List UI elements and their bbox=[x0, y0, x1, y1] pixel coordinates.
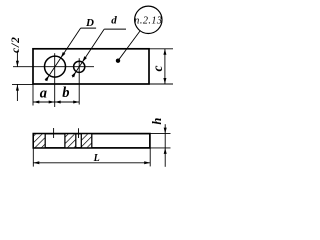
hole d circle bbox=[74, 61, 85, 72]
extension line (plate left edge) below plate for a bbox=[32, 84, 34, 106]
section view outline bbox=[33, 134, 150, 148]
hatch middle block bbox=[65, 134, 76, 147]
vertical centerline of hole D / extension for a,b bbox=[54, 53, 56, 107]
hole d left edge in section bbox=[75, 134, 77, 148]
svg-text:D: D bbox=[85, 17, 94, 29]
extension of section bottom edge right for h bbox=[150, 147, 171, 149]
leader line D through hole bbox=[46, 28, 81, 81]
svg-text:b: b bbox=[62, 85, 69, 101]
svg-text:L: L bbox=[93, 153, 100, 164]
dimension c/2 line bbox=[16, 51, 18, 67]
plate outline (top view) bbox=[33, 49, 149, 84]
extension of section top edge right for h bbox=[150, 133, 171, 135]
horizontal centerline through holes bbox=[13, 66, 94, 68]
hole D left edge in section bbox=[44, 134, 46, 148]
hole d centerline tick in section bbox=[78, 128, 80, 138]
leader line d through hole bbox=[72, 29, 104, 77]
svg-text:a: a bbox=[40, 85, 47, 101]
hole d right edge in section bbox=[80, 134, 82, 148]
extension of bottom edge to right for c bbox=[149, 83, 173, 85]
hatch left block bbox=[34, 134, 45, 147]
dimension L line bbox=[33, 162, 150, 164]
extension of top edge to right for c bbox=[149, 48, 173, 50]
hatch right block bbox=[81, 134, 92, 147]
vertical centerline of hole d / extension for b bbox=[78, 58, 80, 104]
hole D centerline tick in section bbox=[53, 128, 55, 138]
svg-text:п.2.13: п.2.13 bbox=[134, 16, 162, 27]
extension line left for L bbox=[32, 148, 34, 167]
dimension c line bbox=[164, 49, 166, 84]
svg-text:c/2: c/2 bbox=[10, 36, 22, 53]
balloon п.2.13 bbox=[135, 6, 162, 33]
balloon leader dot bbox=[116, 59, 120, 63]
svg-text:h: h bbox=[150, 118, 164, 125]
dimension line a,b bbox=[33, 101, 79, 103]
dimension h line bbox=[164, 124, 166, 167]
svg-text:c: c bbox=[150, 66, 165, 72]
svg-text:d: d bbox=[111, 15, 117, 27]
extension of plate bottom edge to the left for c/2 bbox=[12, 83, 33, 85]
balloon leader bbox=[118, 31, 140, 61]
hole D right edge in section bbox=[64, 134, 66, 148]
hole D circle bbox=[45, 56, 66, 77]
extension line right for L bbox=[149, 148, 151, 166]
end of hatched zone line bbox=[91, 134, 93, 148]
